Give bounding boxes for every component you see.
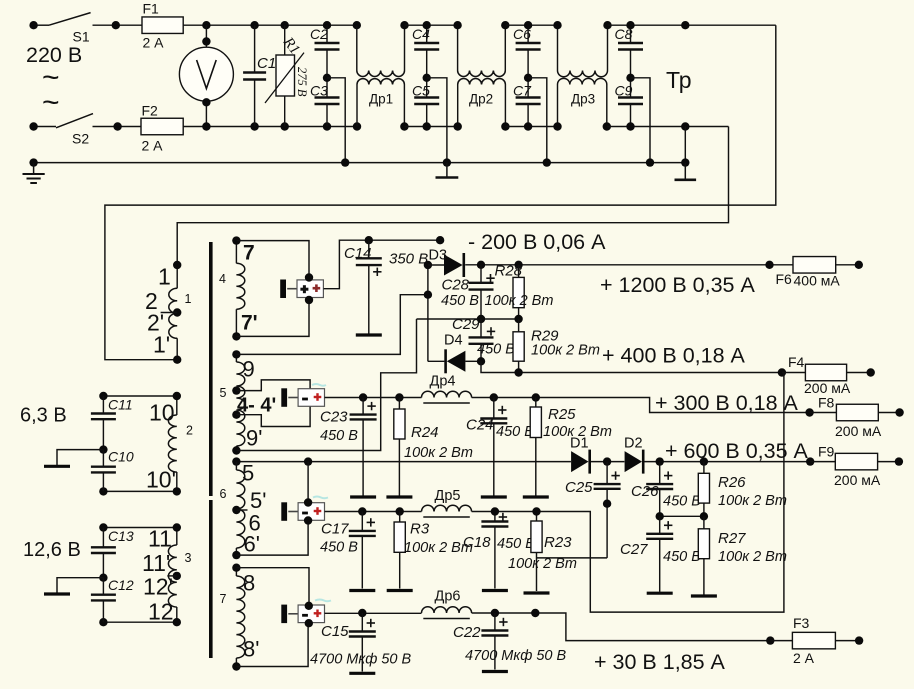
svg-text:100к 2 Вт: 100к 2 Вт <box>718 549 787 565</box>
diode D1 <box>571 450 590 474</box>
svg-text:450 В: 450 В <box>320 540 358 556</box>
svg-text:6: 6 <box>220 487 227 501</box>
resistor R23 <box>531 512 542 592</box>
bridge 4 top/bottom dots <box>305 273 313 304</box>
ground symbol far left (3 bars) <box>33 163 35 174</box>
wire F4 left lead <box>782 372 806 374</box>
wire Dr4 row right <box>472 398 810 413</box>
svg-text:Тр: Тр <box>666 67 692 93</box>
node F6 output <box>855 261 863 269</box>
svg-text:+ 600 В 0,35 А: + 600 В 0,35 А <box>665 439 809 463</box>
svg-text:Др5: Др5 <box>435 488 461 504</box>
svg-text:~: ~ <box>42 86 60 119</box>
fuse F4 <box>805 364 846 381</box>
primary winding 1 <box>176 265 178 288</box>
diode D2 <box>625 450 644 474</box>
scan artifact above bridge 8 <box>315 600 331 602</box>
node F8 junction <box>805 408 813 416</box>
svg-text:1: 1 <box>158 264 171 290</box>
wire bottom rail Dr3 to corner <box>607 126 729 128</box>
winding 2 end dots <box>99 392 181 496</box>
dots on Dr4 row <box>359 393 404 401</box>
capacitor C15 <box>349 613 376 672</box>
svg-text:9: 9 <box>243 357 255 382</box>
dots Dr1 top-right and bottom-right <box>400 21 409 131</box>
svg-text:10': 10' <box>146 467 176 493</box>
winding 3 end and tap dots <box>99 523 181 626</box>
wire F3 right lead <box>835 640 859 642</box>
wire 12.6V bottom <box>103 621 176 623</box>
choke Dr2 line winding <box>457 25 459 70</box>
wire tap 8' to bridge8 bottom <box>236 623 308 667</box>
scan artifact above bridge 5 <box>312 384 326 386</box>
node C12-C13 mid <box>99 574 107 582</box>
wire D3 anode lead <box>428 264 444 266</box>
wire F9 right lead <box>878 461 899 463</box>
bridge rectifier (winding 5, 4-4') <box>281 388 324 407</box>
stub tap 11'-12' <box>167 575 177 577</box>
chassis bar under R25 <box>523 495 549 498</box>
doubler node dots <box>424 261 432 299</box>
bridge rectifier (winding 6) <box>281 502 324 521</box>
svg-text:4- 4': 4- 4' <box>237 395 276 417</box>
choke Dr6 <box>422 607 472 613</box>
wire neutral feed: bottom rail to primary top <box>177 127 728 266</box>
choke Dr2 neutral winding <box>457 85 459 127</box>
svg-text:450 В: 450 В <box>477 342 515 358</box>
capacitor C11 <box>91 396 116 450</box>
svg-text:R23: R23 <box>544 534 572 551</box>
node C8-C9 midpoint <box>626 74 634 82</box>
svg-text:F9: F9 <box>818 444 835 460</box>
svg-text:9': 9' <box>246 426 262 451</box>
svg-text:275 В: 275 В <box>295 67 309 97</box>
dots +600 rail left <box>232 457 312 465</box>
chassis bar under C22 <box>482 670 508 673</box>
svg-text:8: 8 <box>243 571 255 596</box>
svg-text:C3: C3 <box>310 83 328 99</box>
dots C6 C7 on rails <box>524 21 532 131</box>
svg-text:D1: D1 <box>570 436 589 452</box>
wire bottom rail Dr1 to Dr2 <box>404 126 457 128</box>
wire voltmeter bottom lead <box>205 101 207 126</box>
wire top rail Dr2 to Dr3 <box>505 24 557 26</box>
resistor R27 <box>698 516 709 594</box>
capacitor C6 <box>516 25 541 78</box>
capacitor C9 <box>618 78 643 127</box>
svg-text:R27: R27 <box>718 530 746 547</box>
svg-text:6,3 В: 6,3 В <box>20 405 67 427</box>
wire doubler mid row <box>417 318 519 320</box>
voltmeter terminal dots <box>202 37 210 106</box>
capacitor C23 <box>350 398 377 496</box>
capacitor C3 <box>315 78 340 127</box>
wire tap 7' to bridge bottom <box>236 300 309 336</box>
chassis bar under C15 <box>349 672 375 675</box>
wire F6 left lead <box>770 264 794 266</box>
resistor R25 <box>530 398 541 496</box>
chassis bar under R27 <box>691 594 717 597</box>
switch S2 blade <box>56 114 93 128</box>
wire line feed: top rail to primary bottom <box>105 25 776 360</box>
resistor R3 <box>394 512 405 589</box>
wire mid row to 9' riser <box>236 319 416 451</box>
wire C2-C3 midpoint to ground bus <box>327 78 345 163</box>
node R29 bottom <box>514 368 522 376</box>
winding 7 tap dots <box>232 564 240 671</box>
capacitor C12 <box>91 578 116 623</box>
transformer core bar <box>209 242 213 496</box>
wire +600 rail (from tap 5) <box>236 461 571 463</box>
capacitor C25 <box>594 462 621 558</box>
dots C17 R3 tops <box>358 507 404 515</box>
ground bus line <box>34 162 686 164</box>
svg-text:F3: F3 <box>793 615 810 631</box>
svg-text:C13: C13 <box>108 528 134 544</box>
svg-text:C11: C11 <box>108 397 133 413</box>
svg-text:5': 5' <box>250 488 266 513</box>
svg-text:C25: C25 <box>565 479 593 496</box>
svg-text:C23: C23 <box>320 409 348 426</box>
wire C4-C5 midpoint to ground bus <box>427 78 447 163</box>
chassis bar under C27 <box>647 592 673 595</box>
svg-text:S2: S2 <box>72 131 89 147</box>
svg-text:5: 5 <box>220 386 227 400</box>
svg-text:200 мА: 200 мА <box>835 423 882 439</box>
svg-text:+ 400 В 0,18 А: + 400 В 0,18 А <box>602 344 746 368</box>
capacitor C29 <box>469 319 496 361</box>
svg-text:F2: F2 <box>142 103 159 119</box>
wire C12-C13 mid to chassis <box>57 578 103 593</box>
svg-text:C22: C22 <box>453 624 481 641</box>
winding 5 tap dots <box>232 350 240 455</box>
ground symbol under C4-C5 drop <box>446 163 448 177</box>
fuse F2 <box>141 118 183 135</box>
diode D3 <box>444 253 464 277</box>
bridge8 top/bottom dots <box>305 602 313 628</box>
wire F8 right lead <box>878 412 899 414</box>
dots C15 top <box>358 609 366 617</box>
svg-text:C14: C14 <box>344 245 372 262</box>
svg-text:Др1: Др1 <box>369 92 393 107</box>
ground bus junction dots <box>29 158 689 166</box>
wire Dr6 row right <box>472 613 771 641</box>
svg-text:12,6 В: 12,6 В <box>23 539 81 561</box>
wire top rail after switch S1 <box>93 24 357 26</box>
choke Dr3 line winding <box>557 25 559 70</box>
capacitor C17 <box>349 512 376 589</box>
wire +1200 rail <box>465 264 769 266</box>
dot on C25 lead <box>603 500 611 508</box>
node F4 junction <box>778 368 786 376</box>
winding 4 end dots <box>232 236 240 340</box>
choke Dr4 <box>422 391 472 397</box>
wire D4 cathode lead <box>428 360 445 362</box>
chassis bar under R24 <box>386 495 412 498</box>
winding 6 (taps 5,5'-6,6') <box>235 462 237 470</box>
node D4 C29 <box>477 357 485 365</box>
capacitor C8 <box>618 25 643 78</box>
node F8 output <box>895 408 903 416</box>
node F9 output <box>895 457 903 465</box>
svg-text:D3: D3 <box>429 248 448 264</box>
node C14 top <box>365 236 373 244</box>
resistor R29 <box>513 319 524 373</box>
svg-text:7: 7 <box>220 592 227 606</box>
wire bottom rail S2 to Dr1 <box>93 126 358 128</box>
chassis bar under R3 <box>387 589 413 592</box>
svg-text:2 А: 2 А <box>143 35 165 51</box>
wire bottom mains rail to switch S2 <box>34 126 56 128</box>
wire C25 bottom to R23 lead <box>537 557 608 559</box>
chassis bar under C23 <box>350 495 376 498</box>
wire tap 9 to doubler node <box>236 295 428 355</box>
resistor R26 <box>698 462 709 517</box>
capacitor C2 <box>315 25 340 78</box>
winding 6 tap dots <box>232 506 240 560</box>
svg-text:2 А: 2 А <box>142 138 164 154</box>
choke Dr5 <box>422 505 472 511</box>
svg-text:C2: C2 <box>310 26 328 42</box>
svg-text:100к 2 Вт: 100к 2 Вт <box>718 493 787 509</box>
svg-text:Др6: Др6 <box>435 589 461 605</box>
primary tap dots 1, 2-2', 1' <box>173 261 181 364</box>
svg-text:12: 12 <box>148 599 174 625</box>
choke Dr3 neutral winding <box>557 85 559 127</box>
wire +400 rail <box>481 361 782 372</box>
fuse F3 <box>792 632 835 649</box>
node F3 junction <box>766 636 774 644</box>
node F4 output <box>867 368 875 376</box>
chassis bar 6.3V <box>44 465 70 468</box>
dots C18 R23 tops <box>491 507 541 515</box>
mid dots C26-R26 <box>656 512 709 520</box>
svg-text:450 В: 450 В <box>663 549 701 565</box>
dot on top rail near Tr <box>681 21 689 29</box>
svg-text:C17: C17 <box>321 521 349 538</box>
wire Dr5 row right and link to +400 <box>472 373 784 613</box>
ground symbol at end of ground bus <box>684 163 686 179</box>
svg-text:Др2: Др2 <box>469 92 493 107</box>
dots bottom rail near Tr <box>681 122 689 130</box>
wire D1 to D2 <box>591 461 625 463</box>
svg-text:C1: C1 <box>257 55 276 72</box>
svg-text:R25: R25 <box>548 406 576 423</box>
fuse F1 <box>142 17 183 34</box>
dots Dr2 rails <box>453 21 509 131</box>
svg-text:100к 2 Вт: 100к 2 Вт <box>404 445 473 461</box>
choke Dr1 neutral winding <box>356 85 358 127</box>
svg-text:2 А: 2 А <box>793 650 815 666</box>
wire bridge5 output row <box>325 397 422 399</box>
capacitor C1 <box>243 25 266 126</box>
wire F3 left lead <box>770 640 792 642</box>
svg-text:C27: C27 <box>620 541 648 558</box>
svg-text:11': 11' <box>142 550 170 576</box>
wire Dr6 row <box>325 612 422 614</box>
wire tap 4' routing <box>236 406 310 426</box>
wire tap 7 to bridge top <box>236 241 309 278</box>
svg-text:- 200 В 0,06 А: - 200 В 0,06 А <box>468 230 606 254</box>
svg-text:C28: C28 <box>442 277 470 294</box>
svg-text:C15: C15 <box>321 623 349 640</box>
wire C10-C11 mid to chassis <box>57 450 103 465</box>
chassis bar under C17 <box>349 589 375 592</box>
wire bottom rail Dr2 to Dr3 <box>505 126 557 128</box>
winding 4 (taps 7-7') <box>235 241 237 264</box>
junction dots on top rail <box>29 21 361 29</box>
svg-text:F1: F1 <box>143 1 160 17</box>
svg-text:400 мА: 400 мА <box>794 273 841 289</box>
svg-text:6': 6' <box>244 532 260 557</box>
wire 6.3V bottom <box>103 490 176 492</box>
scan artifact above bridge 6 <box>313 497 328 499</box>
wire top rail Dr1 to Dr2 <box>405 24 458 26</box>
wire tap 5 riser to bridge6 <box>307 462 309 503</box>
svg-text:1': 1' <box>153 332 170 358</box>
svg-text:200 мА: 200 мА <box>834 472 881 488</box>
svg-text:R26: R26 <box>718 474 746 491</box>
svg-text:11: 11 <box>148 526 172 552</box>
svg-text:3: 3 <box>185 551 192 565</box>
wire top rail Dr3 to corner <box>608 24 776 26</box>
svg-text:450 В: 450 В <box>496 424 534 440</box>
fuse F6 <box>793 257 836 274</box>
svg-text:D2: D2 <box>624 436 643 452</box>
svg-text:R3: R3 <box>410 521 430 538</box>
svg-text:C7: C7 <box>513 83 532 99</box>
resistor R24 <box>394 398 405 496</box>
winding 7 (taps 8,8') <box>235 568 237 576</box>
svg-text:450 В: 450 В <box>441 293 479 309</box>
winding 3 (12.6V) <box>176 528 178 546</box>
bridge6 top/bottom dots <box>304 498 312 524</box>
svg-text:F6: F6 <box>776 271 793 287</box>
svg-text:C10: C10 <box>108 449 134 465</box>
diode D4 <box>446 349 466 373</box>
svg-text:100к 2 Вт: 100к 2 Вт <box>508 556 577 572</box>
capacitor C13 <box>91 528 116 578</box>
capacitor C4 <box>414 25 439 78</box>
dots on +1200 rail <box>477 261 774 269</box>
svg-text:350 В: 350 В <box>389 251 428 268</box>
wire tap 4 routing <box>236 380 310 391</box>
resistor R28 <box>513 265 524 319</box>
node F3 output <box>855 636 863 644</box>
capacitor C14 <box>356 240 382 333</box>
wire Dr5 row <box>325 511 422 513</box>
node C6-C7 midpoint <box>524 74 532 82</box>
switch S1 blade <box>49 13 91 26</box>
capacitor C22 <box>481 613 508 670</box>
winding 2 (6.3V) <box>176 396 178 415</box>
wire neutral rail drop to ground bus <box>684 127 686 163</box>
svg-text:Др4: Др4 <box>430 374 456 390</box>
svg-text:C24: C24 <box>466 417 494 434</box>
capacitor C27 <box>646 516 673 592</box>
wire C6-C7 midpoint to ground bus <box>528 78 547 163</box>
wire F9 left lead <box>810 461 835 463</box>
dots +600 rail right <box>603 457 815 465</box>
svg-text:F8: F8 <box>818 395 835 411</box>
node C2-C3 midpoint <box>323 74 331 82</box>
dots Dr3 rails <box>553 21 611 131</box>
capacitor C26 <box>646 462 673 517</box>
node C4-C5 midpoint <box>423 74 431 82</box>
svg-text:R24: R24 <box>411 424 439 441</box>
svg-text:C18: C18 <box>463 534 491 551</box>
wire bridge4 output to C14 <box>324 240 441 289</box>
capacitor C5 <box>414 78 439 127</box>
svg-text:D4: D4 <box>444 333 463 349</box>
svg-text:+ 300 В 0,18 А: + 300 В 0,18 А <box>655 391 799 415</box>
svg-text:C5: C5 <box>412 83 430 99</box>
svg-text:4700 Мкф 50 В: 4700 Мкф 50 В <box>465 648 567 664</box>
choke Dr1 line winding <box>356 25 358 70</box>
chassis bar under C24 <box>481 495 507 498</box>
chassis bar under C14 <box>356 333 382 336</box>
svg-text:450 В: 450 В <box>320 428 358 444</box>
svg-text:4: 4 <box>219 272 226 286</box>
svg-text:8': 8' <box>243 637 259 662</box>
dots C24 R25 tops <box>490 393 540 401</box>
wire 12.6V top <box>103 527 176 529</box>
svg-text:100к 2 Вт: 100к 2 Вт <box>485 293 554 309</box>
node C10-C11 mid <box>99 445 107 453</box>
svg-text:7: 7 <box>243 242 255 265</box>
stub tap 2-2' <box>161 312 178 314</box>
fuse F8 <box>836 404 878 421</box>
stub tap 5'-6 <box>236 509 247 511</box>
chassis bar under C18 <box>482 589 508 592</box>
svg-text:C9: C9 <box>615 83 633 99</box>
svg-text:C26: C26 <box>631 483 659 500</box>
svg-text:2: 2 <box>186 424 193 438</box>
svg-text:C12: C12 <box>108 577 134 593</box>
wire D2 to F9 <box>644 461 810 463</box>
fuse F9 <box>835 453 877 470</box>
wire top mains rail segment S1-F1-voltmeter-C1-R1-C2 <box>34 24 49 26</box>
chassis bar 12.6V <box>44 592 70 595</box>
svg-text:1: 1 <box>185 292 192 306</box>
wire F6 right lead <box>836 264 859 266</box>
svg-text:12': 12' <box>143 574 173 600</box>
svg-text:F4: F4 <box>788 354 805 370</box>
svg-text:450 В: 450 В <box>497 536 535 552</box>
dots C8 C9 on rails <box>626 21 634 131</box>
svg-text:4700 Мкф 50 В: 4700 Мкф 50 В <box>310 652 412 668</box>
wire C8-C9 midpoint to ground bus <box>631 78 651 163</box>
svg-text:Др3: Др3 <box>571 92 595 107</box>
svg-text:+ 30 В 1,85 А: + 30 В 1,85 А <box>594 650 726 674</box>
dots C22 top and junction <box>491 609 540 617</box>
winding 5 (taps 9,4-4',9') <box>235 354 237 362</box>
bridge rectifier (winding 7) <box>281 605 324 624</box>
wire 6.3V top <box>103 395 176 397</box>
wire tap 6' to bridge6 bottom <box>236 521 308 555</box>
svg-text:7': 7' <box>241 312 258 335</box>
wire voltmeter top lead <box>205 25 207 47</box>
capacitor C24 <box>480 398 507 496</box>
wire tap 8 to bridge8 top <box>236 568 309 606</box>
svg-text:R28: R28 <box>495 263 523 280</box>
svg-text:10: 10 <box>149 400 175 426</box>
voltmeter V <box>179 47 233 101</box>
svg-text:C29: C29 <box>452 316 480 333</box>
wire C26-C27 mid row <box>660 515 704 517</box>
capacitor C10 <box>91 450 116 492</box>
node -200V end <box>436 236 444 244</box>
